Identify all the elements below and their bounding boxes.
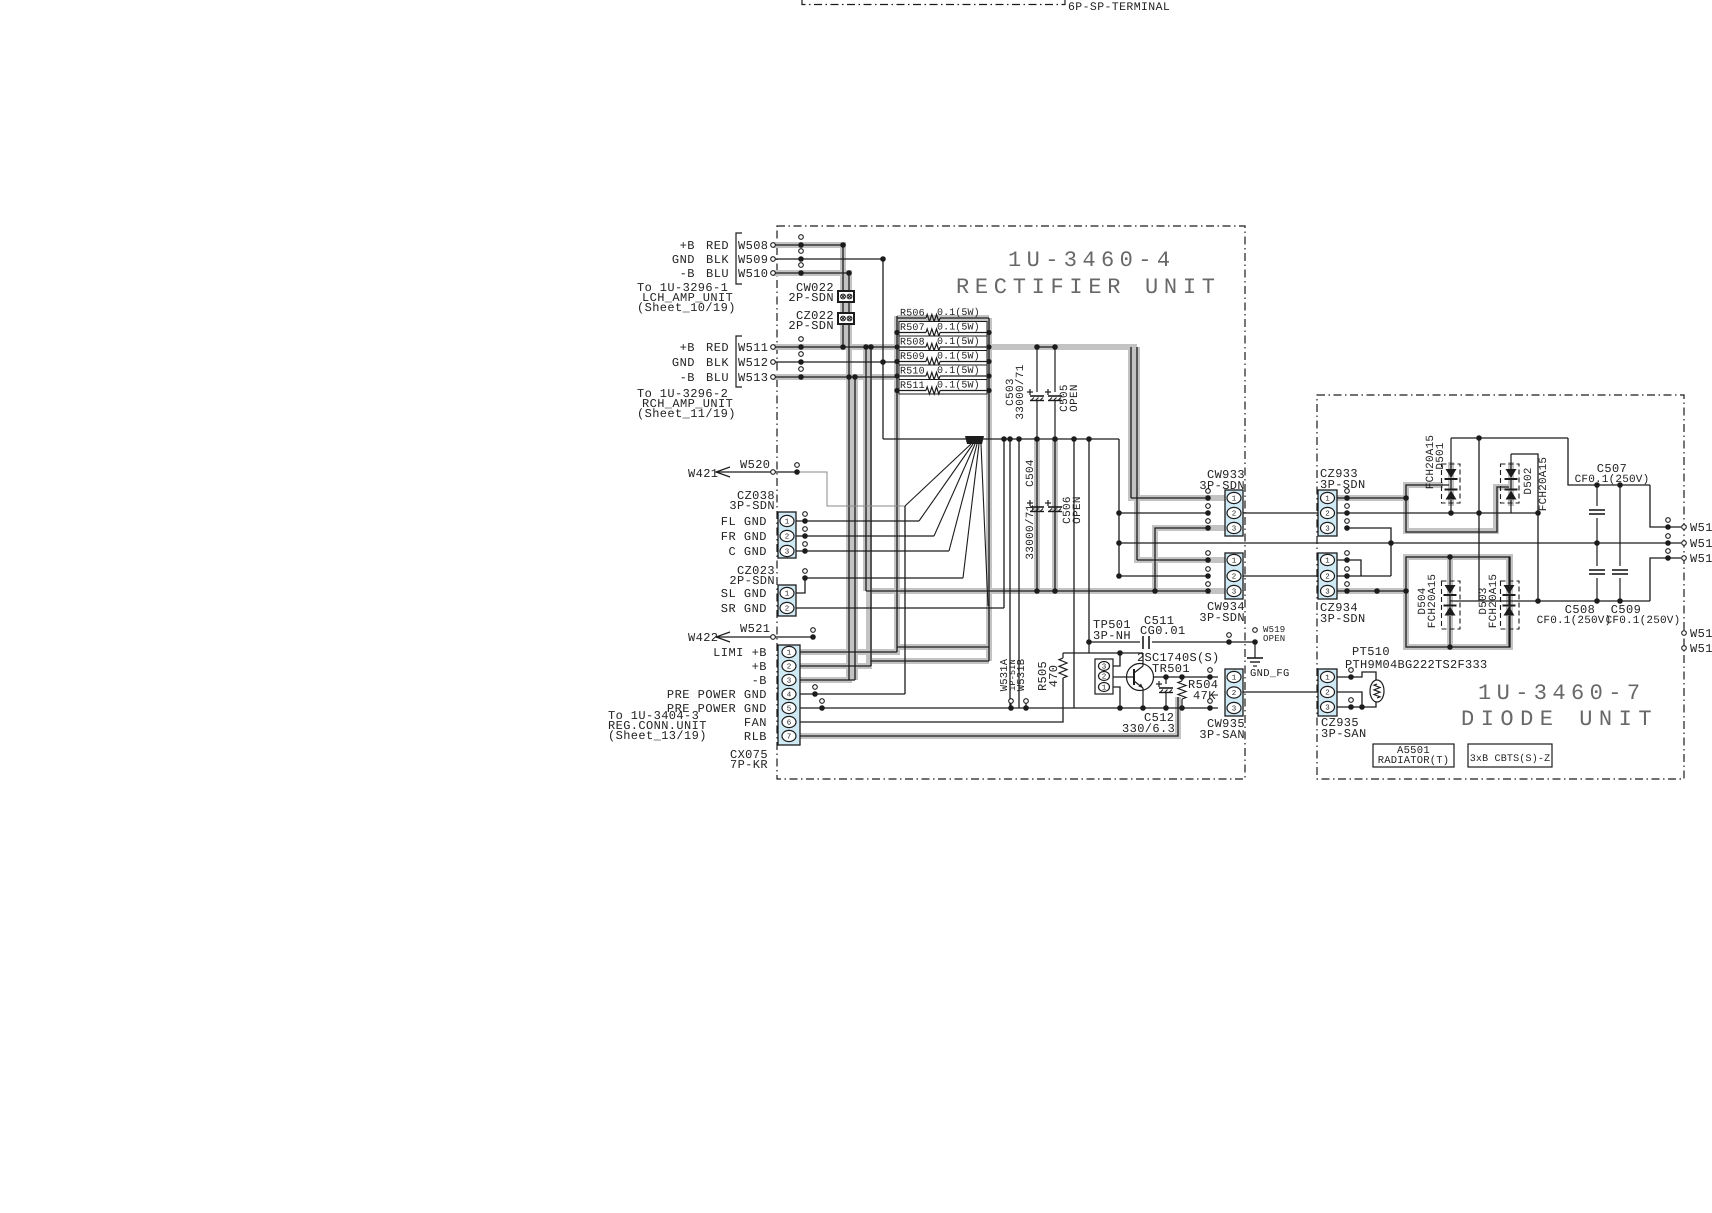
svg-text:W518: W518 [1690,642,1712,656]
gray highlight RLB path [800,697,1178,736]
junction dots left area [798,242,804,248]
wire W508 row [773,244,843,246]
svg-text:2: 2 [1325,573,1330,582]
arrow W421 [716,467,730,477]
wire W510 row [773,272,849,274]
wire CZ933 pin1 to bridge [1337,497,1406,499]
wire CZ933 pin3 to W515 via x1391 [1347,528,1391,576]
wire GND band y591 [866,590,1208,592]
svg-text:W516: W516 [1690,552,1712,566]
posistor stubs dots [1348,674,1354,680]
svg-text:PRE POWER GND: PRE POWER GND [667,688,767,702]
svg-text:CF0.1(250V): CF0.1(250V) [1606,615,1681,627]
junction dots bus [1001,436,1007,442]
connector CW934 3P-SDN [1225,553,1243,599]
svg-text:0.1(5W): 0.1(5W) [937,336,980,348]
wire CW934 pin2 row [1119,575,1208,577]
svg-text:(Sheet_10/19): (Sheet_10/19) [637,301,736,315]
resistor R504 47K [1181,677,1183,681]
svg-text:FL GND: FL GND [721,515,767,529]
wire CW933 pin2 row [1119,512,1208,514]
junction dot W421 [794,469,800,475]
rectifier unit frame 1U-3460-4 [777,226,1245,779]
svg-text:3: 3 [1102,663,1107,672]
wire CW933 pin1 row [1131,497,1208,499]
svg-text:1: 1 [1325,496,1330,504]
connector CZ038 3P-SDN [778,512,796,558]
wire CZ933 pin2 row y513 [1337,512,1538,514]
junction dots bus verticals lower [1116,510,1122,516]
resistor R506 0.1(5W) [897,317,926,319]
svg-text:2: 2 [785,605,790,614]
wire CX075 pin rows [800,651,897,653]
terminal W517 [1682,631,1687,636]
wire W515 row y543 [1119,542,1681,544]
wire W422/W521 row [716,636,813,638]
svg-text:3: 3 [1232,588,1237,597]
svg-text:7P-KR: 7P-KR [730,758,768,772]
wire TP501 pin3 [1113,653,1120,666]
wire CW934 pin2 to CZ934 pin2 [1243,575,1318,577]
svg-text:3: 3 [1232,705,1237,714]
capacitor C505 OPEN [1054,347,1056,392]
gray highlight branch to D502 [1406,487,1510,531]
svg-text:RECTIFIER UNIT: RECTIFIER UNIT [956,275,1221,300]
connector CZ934 3P-SDN [1318,553,1337,599]
svg-text:2: 2 [1232,510,1237,519]
wire collector rail y653 [1063,652,1143,654]
svg-text:2: 2 [785,533,790,542]
svg-text:C GND: C GND [728,545,767,559]
svg-text:R509: R509 [900,352,925,363]
svg-text:BLU: BLU [706,267,729,281]
svg-text:1U-3460-7: 1U-3460-7 [1478,681,1645,706]
wire W511 row [773,346,897,348]
gray highlight row y347 to CW933/CW934 [989,344,1137,350]
gray highlight D502 column [1508,462,1514,506]
svg-text:3P-SDN: 3P-SDN [1320,612,1366,626]
wire TP501 pin2 to base [1113,676,1134,678]
gray highlight W510 -B path [773,273,849,680]
wire +B vertical W508 [842,245,844,347]
svg-text:5: 5 [787,706,792,714]
svg-text:+B: +B [680,341,695,355]
gray highlight W511 +B row [773,344,897,350]
svg-text:W514: W514 [1690,521,1712,535]
wire CZ934 pin3 row [1337,590,1406,592]
svg-text:0.1(5W): 0.1(5W) [937,380,980,392]
wire top rail y438 [1451,437,1568,439]
terminal W518 [1682,646,1687,651]
svg-text:2: 2 [1232,689,1237,698]
gray highlight vertical x866 [863,347,869,591]
connector CZ023 2P-SDN [778,585,796,616]
capacitor C507 CF0.1(250V) [1596,485,1598,506]
gray highlight D503 column [1506,560,1512,645]
wire x1568 to C rail [1568,438,1650,485]
terminal W514 [1665,524,1671,530]
wire CZ935 pin3 row [1337,701,1376,707]
wire GND bus y439 [883,438,1119,440]
wire x1538 down [1537,513,1539,601]
svg-text:OPEN: OPEN [1263,634,1285,644]
wire W421 step to fan (thin) [797,472,905,506]
svg-text:3: 3 [785,548,790,557]
test point circles CZ933/CZ934 [1345,489,1350,494]
wire bus right end down [1118,439,1120,576]
gray highlight CW933 pin3 elbow [1155,528,1225,591]
connector CW935 3P-SAN [1225,669,1243,716]
junction dots rail y708 [1008,705,1014,711]
bracket W508-W510 [736,233,742,284]
wire GND vertical W509 [882,259,884,439]
svg-text:R508: R508 [900,338,925,349]
svg-text:R510: R510 [900,367,925,378]
svg-text:W510: W510 [738,267,768,281]
wire CW933 pin3 row [1155,528,1208,591]
capacitor C508 CF0.1(250V) [1596,543,1598,566]
box 3xB CBTS(S)-Z [1468,744,1552,767]
wire CW934 pin1 row [1137,559,1208,561]
svg-text:SR GND: SR GND [721,602,767,616]
svg-text:FAN: FAN [744,716,767,730]
terminal W515 [1665,540,1671,546]
wire RLB row [800,697,1178,736]
svg-text:TR501: TR501 [1152,662,1190,676]
svg-text:W512: W512 [738,356,768,370]
svg-text:0.1(5W): 0.1(5W) [937,322,980,334]
wire branch to D502 mid [1406,487,1509,532]
svg-text:W421: W421 [688,467,718,481]
wire W514 branch [1650,485,1681,527]
svg-text:W517: W517 [1690,627,1712,641]
svg-text:7: 7 [787,734,792,742]
svg-text:6P-SP-TERMINAL: 6P-SP-TERMINAL [1068,1,1170,14]
svg-text:1: 1 [1325,558,1330,566]
svg-text:470: 470 [1047,665,1061,688]
gray highlight vertical to CW933 pin1 [1131,347,1225,498]
svg-text:330/6.3: 330/6.3 [1122,722,1175,736]
wire +B vertical to pin2 [870,347,872,666]
diode unit frame 1U-3460-7 [1317,395,1684,779]
wire CW933 pin2 to CZ933 pin2 [1243,512,1318,514]
svg-text:W515: W515 [1690,537,1712,551]
wire CZ934 pin2 row [1337,575,1391,577]
gray highlight +B vertical to CX075 pin2 [800,347,869,666]
diode D501 FCH20A15 [1442,464,1461,503]
gray highlight GND band y591 [866,588,1226,594]
wire bus verticals [1003,439,1005,608]
wire x1479 vertical [1478,438,1480,601]
resistor R508 0.1(5W) [899,336,987,351]
wire PRE POWER GND rail y708 [800,707,1218,709]
resistor R509 0.1(5W) [899,351,987,366]
posistor body [1370,680,1384,702]
svg-text:3P-SDN: 3P-SDN [1199,611,1245,625]
box A5501 RADIATOR(T) [1373,744,1454,767]
fan node blob [965,436,984,444]
svg-text:W509: W509 [738,253,768,267]
gray highlight W508 +B path [773,245,843,347]
svg-text:BLK: BLK [706,356,729,370]
wire CZ935 pin2 elbow [1337,692,1362,707]
svg-text:3: 3 [1325,588,1330,597]
svg-text:3xB CBTS(S)-Z: 3xB CBTS(S)-Z [1470,753,1551,765]
gray highlight ladder right bus [986,318,992,661]
junction dots rail y677 [1163,674,1169,680]
svg-text:1U-3460-4: 1U-3460-4 [1008,248,1175,273]
gray highlight D501 column [1448,462,1454,506]
capacitor C511 CQ0.01 [1140,636,1152,649]
diode bridge lower loop [1406,557,1510,647]
svg-text:CG0.01: CG0.01 [1140,624,1186,638]
connector CX075 7P-KR [778,645,800,745]
capacitor C509 CF0.1(250V) [1619,485,1621,566]
svg-text:RLB: RLB [744,730,767,744]
svg-text:CF0.1(250V): CF0.1(250V) [1575,474,1650,486]
svg-text:OPEN: OPEN [1072,496,1084,524]
svg-text:R507: R507 [900,323,925,334]
gray highlight CZ934 pin3 entry [1337,588,1406,594]
svg-text:D501: D501 [1435,442,1447,469]
resistor R505 470 [1062,653,1064,658]
gray highlight vertical to CW934 pin1 [1137,347,1225,560]
connector CW933 3P-SDN [1225,490,1243,536]
bracket W511-W513 [736,336,742,387]
capacitor C504 33000/71 [1027,502,1033,504]
svg-text:3: 3 [1325,525,1330,534]
wire CZ935 pin1 to posistor [1337,672,1376,680]
svg-text:RED: RED [706,341,729,355]
junction dots diode unit [1344,495,1350,501]
junction dots C511 rail [1086,639,1092,645]
wire branch to D501 mid [1406,485,1449,498]
junction dots gray band y591 [1034,588,1040,594]
wire TP501 pin1 [1113,687,1120,708]
svg-text:W508: W508 [738,239,768,253]
wire -B vertical W510 [848,273,850,680]
wire CZ038 pin rows [796,520,919,522]
svg-text:PT510: PT510 [1352,645,1390,659]
gray highlight ladder left bus [800,316,897,652]
svg-text:SL GND: SL GND [721,587,767,601]
svg-text:W531B: W531B [1016,659,1028,692]
svg-text:2: 2 [1102,673,1107,682]
gray highlight D504 column [1447,560,1453,645]
wire x905 vertical [904,506,906,694]
ground GND_FG [1254,642,1256,658]
svg-text:+B: +B [680,239,695,253]
svg-text:W521: W521 [740,622,770,636]
diode D502 FCH20A15 [1501,464,1520,503]
wire W512 row [773,361,897,363]
svg-text:3P-SDN: 3P-SDN [729,499,775,513]
diode D503 FCH20A15 [1501,581,1520,629]
wire W513 row [773,376,897,378]
gray highlight C504 column [1034,440,1040,591]
svg-text:0.1(5W): 0.1(5W) [937,351,980,363]
junction dots CZ038/CZ023 stubs [802,518,808,524]
svg-text:(Sheet_11/19): (Sheet_11/19) [637,407,736,421]
wire jog y647 LIMI [897,646,989,648]
test point circles left area [799,235,804,240]
diode D504 FCH20A15 [1442,581,1461,629]
junction dots CW933/CW934 stubs [1205,495,1211,501]
svg-text:FCH20A15: FCH20A15 [1538,457,1550,511]
gray highlight C506 column [1052,440,1058,591]
resistor R510 0.1(5W) [899,365,987,380]
6P-SP-TERMINAL box [802,0,1065,5]
gray highlight +B return y661 [871,658,989,664]
svg-text:3: 3 [1325,704,1330,713]
svg-text:GND: GND [672,356,695,370]
svg-text:RADIATOR(T): RADIATOR(T) [1378,755,1450,767]
svg-text:FR GND: FR GND [721,530,767,544]
svg-text:2P-SDN: 2P-SDN [729,574,775,588]
connector CZ935 3P-SAN [1318,669,1337,716]
svg-text:-B: -B [680,371,695,385]
wire D502 top loop [1511,454,1538,513]
svg-text:4: 4 [787,692,792,700]
svg-text:2: 2 [1232,573,1237,582]
svg-text:+B: +B [752,660,767,674]
terminals W508-W510 [771,243,776,248]
wire CZ023 pin1 elbow row [796,578,963,593]
connector TP501 [1095,659,1113,694]
wire W519 stub [1227,633,1232,638]
svg-text:C504: C504 [1025,459,1037,487]
svg-text:-B: -B [752,674,767,688]
svg-text:1: 1 [1232,558,1237,566]
svg-text:2P-SDN: 2P-SDN [788,319,834,333]
terminals W511-W513 [771,345,776,350]
svg-text:GND_FG: GND_FG [1250,668,1290,680]
svg-text:0.1(5W): 0.1(5W) [937,307,980,319]
wire W421/W520 row [716,471,797,473]
gray highlight W513 row [773,374,897,380]
resistor R511 0.1(5W) [899,380,987,395]
wire C503/C505 top feed [1037,346,1055,348]
svg-text:1: 1 [785,591,790,599]
svg-text:W520: W520 [740,458,770,472]
wire CZ934 pin1 elbow [1337,560,1361,576]
gray highlight lower bridge loop [1406,557,1510,647]
svg-text:3P-SAN: 3P-SAN [1199,728,1245,742]
wire CW935 pin2 to CZ935 [1243,691,1318,693]
svg-text:2P-SDN: 2P-SDN [788,291,834,305]
gray highlight CZ933 pin1 bridge path [1337,485,1443,498]
svg-text:R511: R511 [900,381,925,392]
svg-text:3P-SAN: 3P-SAN [1321,727,1367,741]
transistor TR501 2SC1740S(S) [1127,664,1154,691]
svg-text:0.1(5W): 0.1(5W) [937,365,980,377]
capacitor C506 OPEN [1045,502,1051,504]
svg-text:LIMI +B: LIMI +B [713,646,767,660]
svg-text:2: 2 [1325,689,1330,698]
wire ladder left bus [896,316,898,652]
svg-text:1: 1 [785,519,790,527]
svg-text:33000/71: 33000/71 [1015,364,1027,419]
svg-text:GND: GND [672,253,695,267]
svg-text:1: 1 [787,650,792,658]
gray highlight W513 -B vertical [852,377,858,680]
wire vertical x866 to band [865,347,867,591]
wire W509 row [773,258,883,260]
junction dots CX075 wires [812,691,818,697]
svg-text:OPEN: OPEN [1069,384,1081,412]
svg-text:FCH20A15: FCH20A15 [1427,574,1439,628]
svg-text:W422: W422 [688,631,718,645]
jumper W531B [1024,699,1029,704]
svg-text:DIODE UNIT: DIODE UNIT [1461,707,1658,732]
capacitor C512 330/6.3 [1165,677,1167,684]
svg-text:CF0.1(250V): CF0.1(250V) [1537,615,1612,627]
svg-text:3: 3 [787,677,792,686]
svg-text:W513: W513 [738,371,768,385]
svg-text:1: 1 [1102,685,1107,693]
svg-text:3P-NH: 3P-NH [1093,629,1131,643]
svg-text:33000/71: 33000/71 [1025,504,1037,559]
wire C511 rail y642 [1089,641,1255,643]
terminal W516 [1665,555,1671,561]
capacitor C503 33000/71 [1036,347,1038,392]
svg-text:W511: W511 [738,341,768,355]
svg-text:2: 2 [1325,510,1330,519]
wire CZ023 pin2 SR GND row [796,607,1004,609]
svg-text:D502: D502 [1523,467,1535,494]
arrow W422 [716,632,730,642]
wire mid rail y601 [1450,600,1650,602]
svg-text:(Sheet_13/19): (Sheet_13/19) [608,729,707,743]
gray highlight jog y647 [897,644,989,650]
gray highlight ladder rows [897,315,989,321]
svg-text:BLK: BLK [706,253,729,267]
svg-text:2: 2 [787,663,792,672]
svg-text:PTH9M04BG222TS2F333: PTH9M04BG222TS2F333 [1345,658,1488,672]
svg-text:3: 3 [1232,525,1237,534]
wire fan node diagonals [905,444,971,506]
wire -B vertical W513 to pin3 [854,377,856,680]
wire TR collector rail y677 [1154,676,1219,678]
wire W516 branch [1650,558,1681,601]
svg-text:1: 1 [1325,675,1330,683]
svg-text:BLU: BLU [706,371,729,385]
wire ladder right bus [988,318,990,661]
svg-text:1: 1 [1232,496,1237,504]
wire FAN row [800,678,1063,722]
wire +B return y661 [871,660,989,662]
resistor R507 0.1(5W) [899,322,987,337]
svg-text:6: 6 [787,719,792,728]
jumper W531A [1009,699,1014,704]
svg-text:RED: RED [706,239,729,253]
svg-text:R506: R506 [900,309,925,320]
svg-text:1: 1 [1232,675,1237,683]
svg-text:-B: -B [680,267,695,281]
